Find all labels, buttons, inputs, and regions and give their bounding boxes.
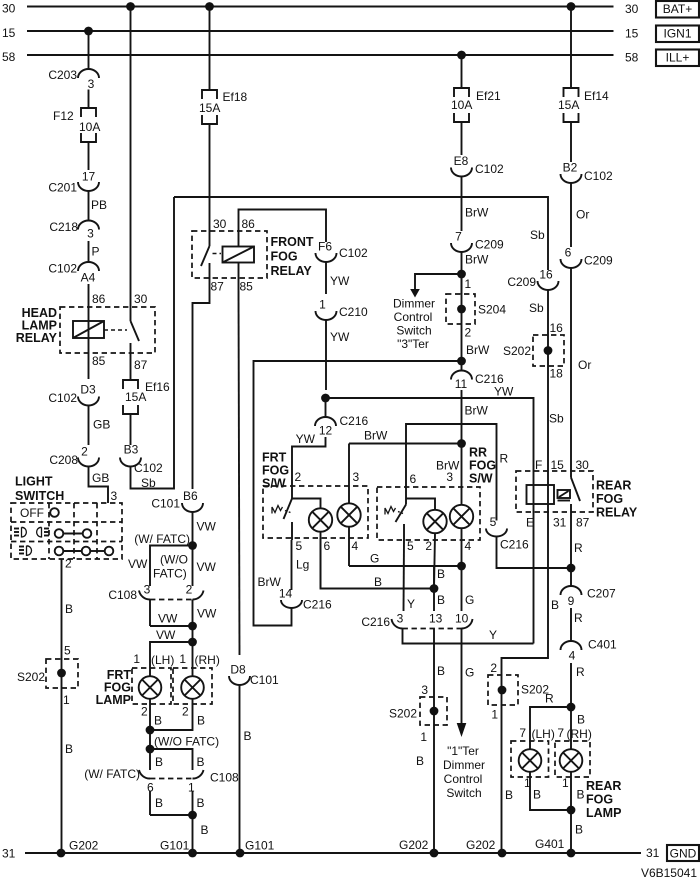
svg-text:R: R	[574, 541, 583, 555]
svg-text:Sb: Sb	[549, 412, 564, 426]
svg-text:58: 58	[2, 50, 16, 64]
svg-text:10: 10	[455, 612, 469, 626]
svg-text:PB: PB	[91, 198, 107, 212]
svg-text:Or: Or	[578, 358, 591, 372]
svg-text:C401: C401	[588, 638, 617, 652]
svg-text:B: B	[575, 823, 583, 837]
svg-text:BrW: BrW	[465, 404, 489, 418]
svg-text:B: B	[437, 593, 445, 607]
svg-text:F: F	[535, 458, 542, 472]
svg-text:B: B	[65, 602, 73, 616]
svg-text:G101: G101	[160, 839, 190, 853]
svg-text:1: 1	[465, 277, 472, 291]
svg-text:IGN1: IGN1	[663, 27, 691, 41]
svg-text:3: 3	[353, 470, 360, 484]
svg-text:14: 14	[279, 587, 293, 601]
svg-text:7: 7	[519, 726, 526, 740]
svg-text:S/W: S/W	[262, 477, 286, 491]
svg-text:Ef16: Ef16	[145, 380, 170, 394]
svg-text:4: 4	[352, 539, 359, 553]
svg-text:BrW: BrW	[258, 575, 282, 589]
svg-text:YW: YW	[296, 432, 316, 446]
svg-text:VW: VW	[158, 612, 178, 626]
svg-text:87: 87	[576, 516, 590, 530]
svg-text:(LH): (LH)	[532, 727, 555, 741]
svg-text:V6B15041: V6B15041	[641, 866, 697, 880]
svg-text:C216: C216	[475, 372, 504, 386]
svg-text:FOG: FOG	[262, 464, 289, 478]
svg-text:Switch: Switch	[396, 324, 431, 338]
svg-text:10A: 10A	[451, 98, 472, 112]
svg-text:Y: Y	[489, 628, 497, 642]
svg-text:FOG: FOG	[271, 250, 298, 264]
svg-text:BrW: BrW	[364, 429, 388, 443]
svg-text:(LH): (LH)	[151, 653, 174, 667]
svg-text:A4: A4	[81, 271, 96, 285]
svg-text:VW: VW	[128, 557, 148, 571]
svg-text:FOG: FOG	[586, 793, 613, 807]
svg-text:BrW: BrW	[465, 253, 489, 267]
svg-text:OFF: OFF	[20, 506, 44, 520]
svg-text:VW: VW	[197, 607, 217, 621]
svg-text:86: 86	[92, 292, 106, 306]
svg-text:18: 18	[550, 367, 564, 381]
svg-text:15: 15	[2, 26, 16, 40]
svg-text:1: 1	[179, 652, 186, 666]
svg-text:3: 3	[88, 77, 95, 91]
svg-text:C207: C207	[587, 587, 616, 601]
svg-text:C108: C108	[108, 588, 137, 602]
svg-text:10A: 10A	[79, 120, 100, 134]
svg-text:B: B	[155, 796, 163, 810]
svg-text:G202: G202	[399, 838, 429, 852]
svg-text:B: B	[533, 788, 541, 802]
svg-text:VW: VW	[156, 628, 176, 642]
svg-text:G101: G101	[245, 839, 275, 853]
svg-text:C209: C209	[584, 254, 613, 268]
svg-text:85: 85	[92, 354, 106, 368]
svg-text:87: 87	[134, 358, 148, 372]
svg-text:7: 7	[557, 726, 564, 740]
svg-text:C101: C101	[151, 497, 180, 511]
svg-text:FRT: FRT	[262, 451, 287, 465]
svg-text:3: 3	[397, 612, 404, 626]
svg-text:C209: C209	[507, 275, 536, 289]
svg-text:31: 31	[2, 847, 16, 861]
svg-text:E8: E8	[454, 154, 469, 168]
svg-text:B: B	[197, 714, 205, 728]
svg-text:VW: VW	[197, 520, 217, 534]
svg-text:2: 2	[141, 705, 148, 719]
svg-text:LIGHT: LIGHT	[15, 475, 53, 489]
svg-text:15: 15	[551, 458, 565, 472]
svg-text:B: B	[416, 754, 424, 768]
svg-text:RELAY: RELAY	[271, 264, 313, 278]
svg-text:B: B	[155, 755, 163, 769]
svg-text:S/W: S/W	[469, 472, 493, 486]
svg-text:5: 5	[407, 539, 414, 553]
svg-text:11: 11	[455, 377, 468, 391]
svg-text:86: 86	[242, 217, 256, 231]
svg-text:2: 2	[65, 557, 72, 571]
svg-text:C102: C102	[475, 162, 504, 176]
svg-text:FRONT: FRONT	[271, 235, 314, 249]
svg-text:5: 5	[490, 515, 497, 529]
svg-text:GB: GB	[93, 418, 110, 432]
svg-text:4: 4	[569, 649, 576, 663]
svg-text:B3: B3	[124, 443, 139, 457]
svg-text:C102: C102	[339, 246, 368, 260]
svg-text:6: 6	[324, 539, 331, 553]
svg-text:B: B	[577, 788, 585, 802]
svg-text:12: 12	[319, 424, 333, 438]
svg-text:"1"Ter: "1"Ter	[447, 744, 479, 758]
svg-text:BrW: BrW	[465, 206, 489, 220]
svg-text:Sb: Sb	[530, 228, 545, 242]
svg-text:B: B	[201, 823, 209, 837]
svg-text:Dimmer: Dimmer	[393, 297, 435, 311]
svg-text:C208: C208	[49, 453, 78, 467]
svg-text:C102: C102	[134, 461, 163, 475]
svg-text:P: P	[92, 245, 100, 259]
svg-text:15A: 15A	[558, 98, 579, 112]
svg-text:30: 30	[576, 458, 590, 472]
svg-text:5: 5	[64, 644, 71, 658]
svg-text:1: 1	[491, 708, 498, 722]
svg-text:2: 2	[490, 661, 497, 675]
svg-text:3: 3	[144, 583, 151, 597]
svg-text:F6: F6	[318, 240, 332, 254]
svg-text:C210: C210	[339, 305, 368, 319]
svg-text:G: G	[465, 593, 474, 607]
svg-text:FOG: FOG	[596, 492, 623, 506]
svg-text:C108: C108	[210, 771, 239, 785]
svg-text:(W/O: (W/O	[160, 553, 188, 567]
svg-text:G202: G202	[466, 838, 496, 852]
svg-text:B: B	[154, 714, 162, 728]
svg-text:S202: S202	[503, 344, 531, 358]
svg-text:B: B	[505, 788, 513, 802]
svg-text:YW: YW	[494, 385, 514, 399]
svg-text:1: 1	[562, 776, 569, 790]
svg-text:31: 31	[646, 846, 660, 860]
svg-text:B: B	[437, 664, 445, 678]
svg-text:5: 5	[296, 539, 303, 553]
svg-text:(RH): (RH)	[195, 653, 220, 667]
svg-text:31: 31	[553, 516, 567, 530]
svg-text:(RH): (RH)	[567, 727, 592, 741]
svg-text:B: B	[437, 567, 445, 581]
svg-text:(W/ FATC): (W/ FATC)	[84, 767, 140, 781]
svg-text:16: 16	[539, 268, 553, 282]
svg-text:Control: Control	[444, 772, 483, 786]
svg-text:2: 2	[186, 583, 193, 597]
svg-text:4: 4	[465, 539, 472, 553]
svg-text:2: 2	[182, 705, 189, 719]
svg-text:RR: RR	[469, 446, 487, 460]
svg-text:58: 58	[625, 50, 639, 64]
svg-text:C218: C218	[49, 220, 78, 234]
svg-text:FOG: FOG	[469, 459, 496, 473]
svg-text:Ef14: Ef14	[584, 89, 609, 103]
svg-text:1: 1	[188, 781, 195, 795]
svg-text:FATC): FATC)	[153, 567, 187, 581]
svg-text:BAT+: BAT+	[663, 2, 692, 16]
svg-text:17: 17	[82, 170, 96, 184]
svg-text:SWITCH: SWITCH	[15, 489, 64, 503]
svg-text:2: 2	[425, 539, 432, 553]
svg-text:1: 1	[63, 693, 70, 707]
svg-text:15A: 15A	[199, 101, 220, 115]
svg-text:G: G	[465, 666, 474, 680]
svg-text:C203: C203	[48, 68, 77, 82]
svg-text:30: 30	[2, 1, 16, 15]
svg-text:C102: C102	[48, 391, 77, 405]
svg-text:C216: C216	[500, 538, 529, 552]
svg-text:Y: Y	[407, 597, 415, 611]
svg-text:(W/O FATC): (W/O FATC)	[154, 735, 219, 749]
svg-text:(W/ FATC): (W/ FATC)	[134, 532, 190, 546]
svg-text:RELAY: RELAY	[16, 331, 58, 345]
svg-text:B: B	[197, 755, 205, 769]
svg-text:B: B	[577, 713, 585, 727]
svg-text:7: 7	[455, 230, 462, 244]
svg-text:ILL+: ILL+	[666, 51, 690, 65]
svg-text:B: B	[65, 742, 73, 756]
svg-text:15A: 15A	[125, 390, 146, 404]
svg-text:R: R	[576, 665, 585, 679]
svg-text:C102: C102	[48, 262, 77, 276]
svg-text:B: B	[197, 796, 205, 810]
svg-text:G: G	[370, 552, 379, 566]
svg-text:2: 2	[295, 470, 302, 484]
svg-text:30: 30	[213, 217, 227, 231]
svg-text:B2: B2	[563, 161, 578, 175]
svg-text:C216: C216	[361, 615, 390, 629]
svg-text:S202: S202	[17, 670, 45, 684]
svg-text:30: 30	[625, 2, 639, 16]
svg-text:Lg: Lg	[296, 558, 309, 572]
svg-text:Or: Or	[576, 208, 589, 222]
svg-text:6: 6	[410, 472, 417, 486]
svg-text:3: 3	[446, 470, 453, 484]
svg-text:D8: D8	[230, 663, 246, 677]
svg-text:B: B	[374, 575, 382, 589]
svg-text:YW: YW	[330, 274, 350, 288]
svg-text:9: 9	[568, 594, 575, 608]
svg-text:B6: B6	[183, 489, 198, 503]
svg-text:RELAY: RELAY	[596, 506, 638, 520]
svg-text:G202: G202	[69, 839, 99, 853]
svg-text:C101: C101	[250, 673, 279, 687]
svg-text:LAMP: LAMP	[586, 806, 621, 820]
svg-text:F12: F12	[53, 109, 74, 123]
svg-text:87: 87	[211, 280, 225, 294]
svg-text:G401: G401	[535, 837, 565, 851]
svg-text:REAR: REAR	[596, 479, 631, 493]
svg-text:BrW: BrW	[466, 343, 490, 357]
svg-text:C201: C201	[48, 181, 77, 195]
svg-text:1: 1	[319, 298, 326, 312]
svg-text:S202: S202	[521, 683, 549, 697]
svg-text:2: 2	[81, 445, 88, 459]
svg-text:Dimmer: Dimmer	[443, 758, 485, 772]
svg-text:16: 16	[550, 321, 564, 335]
svg-text:S202: S202	[389, 707, 417, 721]
svg-text:Sb: Sb	[529, 301, 544, 315]
svg-text:YW: YW	[330, 330, 350, 344]
svg-text:C209: C209	[475, 238, 504, 252]
svg-text:D3: D3	[80, 383, 96, 397]
svg-text:C216: C216	[340, 414, 369, 428]
svg-text:REAR: REAR	[586, 779, 621, 793]
svg-text:GND: GND	[670, 847, 697, 861]
svg-text:Ef18: Ef18	[223, 90, 248, 104]
svg-text:Control: Control	[394, 310, 433, 324]
svg-text:R: R	[500, 452, 509, 466]
svg-text:3: 3	[87, 227, 94, 241]
svg-text:85: 85	[240, 280, 254, 294]
svg-text:30: 30	[134, 292, 148, 306]
svg-text:VW: VW	[197, 560, 217, 574]
svg-text:3: 3	[111, 489, 118, 503]
svg-text:C102: C102	[584, 169, 613, 183]
svg-text:GB: GB	[92, 471, 109, 485]
svg-text:1: 1	[420, 730, 427, 744]
svg-text:B: B	[244, 729, 252, 743]
svg-text:Ef21: Ef21	[476, 89, 501, 103]
svg-text:1: 1	[133, 652, 140, 666]
svg-text:6: 6	[565, 246, 572, 260]
svg-text:C216: C216	[303, 598, 332, 612]
svg-text:15: 15	[625, 26, 639, 40]
svg-text:B: B	[551, 598, 559, 612]
svg-text:2: 2	[465, 326, 472, 340]
svg-text:R: R	[574, 611, 583, 625]
svg-text:13: 13	[429, 612, 443, 626]
svg-text:LAMP: LAMP	[96, 693, 131, 707]
svg-text:Switch: Switch	[446, 786, 481, 800]
svg-text:S204: S204	[478, 303, 506, 317]
svg-text:"3"Ter: "3"Ter	[397, 337, 429, 351]
svg-text:3: 3	[421, 683, 428, 697]
